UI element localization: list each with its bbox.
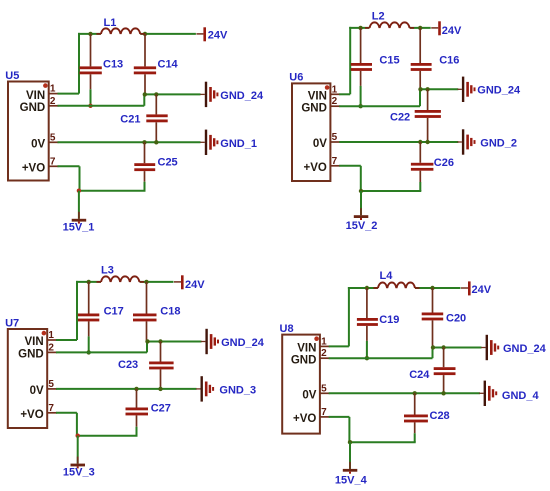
pin 5 bbox=[47, 379, 57, 390]
pin 1 bbox=[320, 336, 330, 347]
wire GND pin2 bbox=[339, 105, 420, 107]
svg-text:GND: GND bbox=[18, 349, 44, 361]
wire GND riser bbox=[419, 89, 421, 106]
ground GND_24 bbox=[481, 335, 499, 360]
junction +VO / 15V branch bbox=[348, 440, 352, 444]
svg-text:0V: 0V bbox=[302, 390, 316, 402]
wire +VO pin7 bbox=[58, 165, 80, 167]
svg-text:2: 2 bbox=[48, 342, 54, 353]
junction 0V / cap D bbox=[142, 140, 146, 144]
junction +VO / 15V branch bbox=[77, 189, 81, 193]
capacitor C23 bbox=[149, 342, 174, 389]
junction 0V / cap D bbox=[418, 140, 422, 144]
svg-text:15V_1: 15V_1 bbox=[63, 222, 95, 234]
svg-text:15V_3: 15V_3 bbox=[63, 467, 95, 479]
svg-text:+VO: +VO bbox=[22, 163, 45, 175]
wire GND_24 rail bbox=[147, 341, 202, 343]
svg-text:7: 7 bbox=[332, 156, 338, 167]
svg-text:24V: 24V bbox=[185, 279, 205, 291]
power 24V bbox=[431, 21, 441, 35]
capacitor C16 bbox=[411, 28, 432, 89]
pin 2 bbox=[330, 96, 340, 107]
power 15V_4 bbox=[343, 462, 358, 474]
wire GND_24 rail bbox=[144, 93, 200, 95]
wire GND riser bbox=[146, 342, 148, 353]
svg-text:15V_4: 15V_4 bbox=[335, 475, 368, 487]
pin-1 origin marker bbox=[43, 83, 48, 88]
wire VIN riser bbox=[78, 33, 80, 94]
wire +VO horizontal bbox=[360, 190, 421, 192]
svg-text:24V: 24V bbox=[472, 284, 492, 296]
wire GND riser bbox=[143, 94, 145, 105]
junction GND_24 rail / cap mid bbox=[425, 87, 429, 91]
wire GND pin2 bbox=[56, 351, 147, 353]
pin 5 bbox=[49, 132, 59, 143]
wire VIN riser bbox=[349, 27, 351, 94]
junction node VIN bbox=[365, 286, 369, 290]
wire +VO pin7 bbox=[56, 412, 77, 414]
inductor L3 bbox=[97, 276, 145, 281]
svg-text:5: 5 bbox=[321, 383, 327, 394]
wire GND pin2 bbox=[58, 105, 145, 107]
junction node 24V side bbox=[143, 32, 147, 36]
junction node 24V side bbox=[144, 280, 148, 284]
svg-text:U8: U8 bbox=[280, 323, 294, 335]
wire 15V riser bbox=[360, 191, 362, 215]
junction cap A / GND wire bbox=[358, 104, 362, 108]
svg-text:C25: C25 bbox=[158, 156, 178, 168]
junction 0V / cap mid bbox=[425, 140, 429, 144]
svg-text:GND_24: GND_24 bbox=[503, 343, 547, 355]
svg-text:+VO: +VO bbox=[20, 409, 43, 421]
wire pin1 to node VIN bbox=[329, 345, 349, 347]
capacitor C20 bbox=[422, 288, 444, 348]
wire +VO down bbox=[348, 417, 350, 442]
svg-text:7: 7 bbox=[48, 403, 54, 414]
wire +VO horizontal bbox=[349, 441, 416, 443]
power 24V bbox=[461, 281, 471, 295]
capacitor C28 bbox=[404, 393, 428, 442]
svg-text:5: 5 bbox=[332, 132, 338, 143]
pin-1 origin marker bbox=[42, 331, 47, 336]
junction 0V / cap mid bbox=[441, 391, 445, 395]
wire pin1 to node VIN bbox=[58, 93, 80, 95]
pin 7 bbox=[47, 403, 57, 414]
power 24V bbox=[174, 275, 184, 289]
junction GND_24 rail / cap mid bbox=[441, 345, 445, 349]
wire top rail left bbox=[348, 287, 378, 289]
svg-text:7: 7 bbox=[321, 407, 327, 418]
wire GND_24 rail bbox=[433, 347, 482, 349]
svg-text:C22: C22 bbox=[390, 112, 410, 124]
junction 0V / cap mid bbox=[158, 387, 162, 391]
wire VIN riser bbox=[76, 281, 78, 340]
wire +VO pin7 bbox=[339, 165, 361, 167]
svg-text:0V: 0V bbox=[313, 138, 327, 150]
svg-text:0V: 0V bbox=[30, 385, 44, 397]
svg-text:C16: C16 bbox=[439, 55, 459, 67]
svg-text:GND: GND bbox=[20, 102, 46, 114]
ground GND_1 bbox=[200, 130, 218, 155]
power 15V_3 bbox=[71, 457, 86, 469]
capacitor C19 bbox=[357, 288, 378, 358]
pin 2 bbox=[47, 342, 57, 353]
IC U8 bbox=[282, 335, 320, 434]
inductor L4 bbox=[373, 283, 419, 288]
wire top rail right bbox=[140, 33, 196, 35]
capacitor C25 bbox=[134, 142, 155, 190]
svg-text:GND_4: GND_4 bbox=[502, 390, 540, 402]
wire GND pin2 bbox=[329, 357, 433, 359]
junction node VIN bbox=[87, 280, 91, 284]
svg-text:0V: 0V bbox=[31, 139, 45, 151]
junction cap A / GND wire bbox=[87, 350, 91, 354]
svg-text:VIN: VIN bbox=[26, 90, 45, 102]
junction node VIN bbox=[358, 26, 362, 30]
svg-text:GND_2: GND_2 bbox=[480, 137, 517, 149]
junction GND_24 rail left bbox=[143, 92, 147, 96]
wire VIN riser bbox=[348, 287, 350, 346]
svg-text:2: 2 bbox=[332, 96, 338, 107]
ground GND_24 bbox=[457, 77, 475, 102]
svg-text:1: 1 bbox=[321, 336, 327, 347]
wire top rail left bbox=[76, 281, 101, 283]
junction node 24V side bbox=[418, 26, 422, 30]
wire top rail right bbox=[140, 281, 174, 283]
svg-text:C27: C27 bbox=[151, 403, 171, 415]
wire 0V pin5 bbox=[58, 141, 201, 143]
pin 2 bbox=[320, 348, 330, 359]
wire 15V riser bbox=[77, 436, 79, 464]
capacitor C14 bbox=[134, 34, 156, 95]
capacitor C22 bbox=[415, 89, 441, 142]
junction +VO / 15V branch bbox=[359, 189, 363, 193]
ground GND_3 bbox=[196, 376, 214, 401]
wire pin1 to node VIN bbox=[56, 339, 77, 341]
junction 0V / cap mid bbox=[154, 140, 158, 144]
svg-text:VIN: VIN bbox=[308, 91, 327, 103]
svg-text:C14: C14 bbox=[158, 59, 179, 71]
svg-text:C19: C19 bbox=[379, 314, 399, 326]
svg-text:1: 1 bbox=[50, 84, 56, 95]
svg-text:VIN: VIN bbox=[297, 343, 316, 355]
svg-text:2: 2 bbox=[50, 96, 56, 107]
svg-text:7: 7 bbox=[50, 156, 56, 167]
junction node 24V side bbox=[430, 286, 434, 290]
junction node VIN bbox=[88, 32, 92, 36]
wire 15V riser bbox=[349, 442, 351, 469]
svg-text:5: 5 bbox=[50, 132, 56, 143]
svg-text:GND_24: GND_24 bbox=[477, 85, 521, 97]
svg-text:GND_24: GND_24 bbox=[220, 90, 264, 102]
pin 2 bbox=[49, 96, 59, 107]
pin 7 bbox=[320, 407, 330, 418]
wire pin1 to node VIN bbox=[339, 93, 350, 95]
inductor L2 bbox=[365, 22, 414, 27]
svg-text:C24: C24 bbox=[409, 369, 430, 381]
junction cap A / GND wire bbox=[88, 104, 92, 108]
svg-text:C17: C17 bbox=[104, 306, 124, 318]
svg-text:U7: U7 bbox=[5, 317, 19, 329]
svg-text:1: 1 bbox=[332, 84, 338, 95]
wire 0V pin5 bbox=[329, 392, 480, 394]
ground GND_24 bbox=[200, 82, 218, 107]
power 15V_1 bbox=[72, 212, 87, 224]
svg-text:GND: GND bbox=[291, 354, 317, 366]
pin-1 origin marker bbox=[325, 85, 330, 90]
svg-text:VIN: VIN bbox=[25, 336, 44, 348]
junction +VO / 15V branch bbox=[76, 434, 80, 438]
wire +VO pin7 bbox=[329, 416, 350, 418]
wire GND riser bbox=[432, 348, 434, 359]
capacitor C15 bbox=[351, 28, 372, 106]
svg-text:GND: GND bbox=[301, 102, 327, 114]
capacitor C13 bbox=[80, 34, 102, 106]
power 24V bbox=[196, 27, 206, 41]
wire GND_24 rail bbox=[420, 88, 458, 90]
IC U6 bbox=[292, 83, 330, 181]
junction GND_24 rail left bbox=[418, 87, 422, 91]
svg-text:15V_2: 15V_2 bbox=[346, 220, 378, 232]
svg-text:U6: U6 bbox=[289, 72, 303, 84]
pin 1 bbox=[330, 84, 340, 95]
capacitor C26 bbox=[411, 142, 434, 191]
junction GND_24 rail left bbox=[431, 345, 435, 349]
svg-text:C18: C18 bbox=[160, 306, 180, 318]
svg-text:C26: C26 bbox=[434, 157, 454, 169]
wire +VO down bbox=[76, 413, 78, 436]
wire top rail left bbox=[78, 33, 101, 35]
svg-text:+VO: +VO bbox=[304, 162, 327, 174]
svg-text:C13: C13 bbox=[103, 58, 123, 70]
svg-text:GND_3: GND_3 bbox=[219, 385, 256, 397]
wire +VO horizontal bbox=[78, 190, 146, 192]
svg-text:L1: L1 bbox=[104, 17, 117, 29]
svg-text:L4: L4 bbox=[380, 270, 394, 282]
capacitor C18 bbox=[133, 282, 157, 342]
capacitor C21 bbox=[146, 94, 167, 142]
ground GND_2 bbox=[457, 129, 475, 154]
junction GND_24 rail left bbox=[145, 339, 149, 343]
svg-text:+VO: +VO bbox=[293, 413, 316, 425]
junction cap A / GND wire bbox=[365, 356, 369, 360]
svg-text:C28: C28 bbox=[430, 410, 450, 422]
svg-text:L2: L2 bbox=[372, 11, 385, 23]
svg-text:C23: C23 bbox=[118, 359, 138, 371]
ground GND_4 bbox=[479, 381, 497, 406]
ground GND_24 bbox=[201, 329, 219, 354]
wire top rail right bbox=[410, 27, 431, 29]
wire 0V pin5 bbox=[56, 388, 197, 390]
IC U7 bbox=[8, 329, 47, 428]
pin 5 bbox=[320, 383, 330, 394]
inductor L1 bbox=[96, 28, 144, 33]
svg-text:GND_1: GND_1 bbox=[220, 138, 257, 150]
svg-text:C21: C21 bbox=[120, 114, 140, 126]
wire +VO down bbox=[360, 166, 362, 191]
svg-text:5: 5 bbox=[48, 379, 54, 390]
svg-text:1: 1 bbox=[48, 330, 54, 341]
pin 1 bbox=[47, 330, 57, 341]
wire 15V riser bbox=[78, 191, 80, 219]
wire top rail right bbox=[415, 287, 461, 289]
svg-text:C15: C15 bbox=[379, 55, 399, 67]
svg-text:24V: 24V bbox=[442, 25, 462, 37]
pin 5 bbox=[330, 132, 340, 143]
svg-text:24V: 24V bbox=[208, 30, 228, 42]
capacitor C24 bbox=[434, 348, 456, 394]
power 15V_2 bbox=[354, 208, 369, 220]
pin 1 bbox=[49, 84, 59, 95]
pin 7 bbox=[330, 156, 340, 167]
junction GND_24 rail / cap mid bbox=[158, 339, 162, 343]
svg-text:GND_24: GND_24 bbox=[221, 337, 265, 349]
wire 0V pin5 bbox=[339, 141, 458, 143]
junction 0V / cap D bbox=[413, 391, 417, 395]
capacitor C27 bbox=[126, 389, 149, 436]
IC U5 bbox=[8, 82, 49, 181]
wire top rail left bbox=[349, 27, 369, 29]
svg-text:L3: L3 bbox=[101, 265, 114, 277]
capacitor C17 bbox=[78, 282, 99, 353]
pin-1 origin marker bbox=[314, 336, 319, 341]
junction 0V / cap D bbox=[134, 387, 138, 391]
svg-text:2: 2 bbox=[321, 348, 327, 359]
wire +VO horizontal bbox=[77, 435, 138, 437]
svg-text:U5: U5 bbox=[5, 70, 19, 82]
pin 7 bbox=[49, 156, 59, 167]
svg-text:C20: C20 bbox=[446, 313, 466, 325]
wire +VO down bbox=[79, 166, 81, 190]
junction GND_24 rail / cap mid bbox=[154, 92, 158, 96]
